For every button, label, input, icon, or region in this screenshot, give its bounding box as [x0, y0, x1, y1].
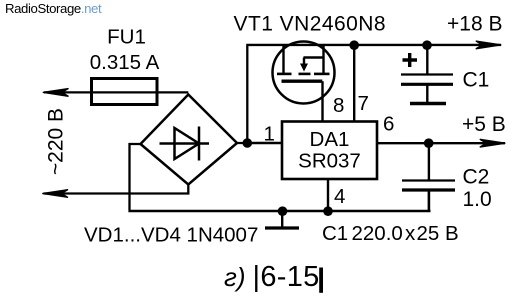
capacitor C2 — [402, 138, 492, 211]
svg-text:VT1 VN2460N8: VT1 VN2460N8 — [234, 12, 386, 35]
source contact foot — [314, 73, 330, 76]
svg-text:C2: C2 — [463, 166, 490, 189]
bottom lead — [426, 85, 428, 102]
bottom lead — [428, 191, 431, 212]
wire: top AC input from arrow to bridge top vertex — [44, 91, 188, 93]
capacitor C1 (electrolytic) — [401, 40, 489, 103]
chassis bar — [410, 102, 446, 105]
wire: +18V top rail — [246, 44, 501, 46]
svg-text:RadioStorage.net: RadioStorage.net — [5, 1, 102, 16]
top lead — [426, 45, 428, 74]
node: ground junction on bottom rail — [278, 206, 288, 216]
bottom plate — [401, 83, 453, 86]
bulk contact foot — [299, 73, 311, 76]
svg-text:VD1...VD4 1N4007: VD1...VD4 1N4007 — [84, 224, 258, 247]
node: C2 to +5 wire junction — [424, 138, 434, 148]
svg-text:220.0: 220.0 — [352, 222, 403, 245]
wire: bridge minus to bottom rail (left vertical) — [130, 144, 141, 210]
svg-text:DA1: DA1 — [310, 128, 350, 151]
svg-text:25 В: 25 В — [417, 222, 459, 245]
svg-text:x: x — [405, 222, 416, 245]
fuse FU1 — [92, 79, 158, 105]
top plate — [402, 179, 455, 181]
IC DA1 SR037 — [282, 122, 377, 180]
svg-text:8: 8 — [333, 94, 344, 117]
drain lead — [282, 46, 284, 73]
svg-text:6: 6 — [383, 113, 394, 136]
svg-text:1.0: 1.0 — [463, 188, 492, 211]
top plate — [401, 73, 453, 75]
node: C1 to +18 rail junction — [422, 40, 432, 50]
wire: pin 7 lead — [353, 45, 355, 122]
diode symbol inside bridge — [160, 127, 210, 161]
wire: pin 1 lead — [247, 142, 282, 144]
source lead — [322, 46, 324, 73]
svg-text:0.315 A: 0.315 A — [90, 51, 160, 74]
terminal arrow +5V — [480, 139, 506, 147]
svg-text:4: 4 — [334, 185, 345, 208]
node: pin7 to +18 rail junction — [349, 40, 359, 50]
node: bridge plus junction — [243, 138, 253, 148]
svg-text:1: 1 — [264, 123, 275, 146]
wire: bridge plus to junction and up to +18V rail — [237, 46, 247, 143]
wire: pin 6 output to +5V arrow — [377, 142, 505, 144]
wire: through fuse — [92, 91, 158, 93]
svg-text:г): г) — [224, 262, 245, 292]
diode bridge VD1-VD4 (diamond) — [141, 95, 238, 185]
node: pin 4 junction — [323, 206, 333, 216]
bulk arrow (points to channel) — [303, 58, 305, 65]
svg-text:C1: C1 — [463, 69, 490, 92]
svg-text:~220 В: ~220 В — [45, 108, 68, 175]
svg-text:FU1: FU1 — [107, 26, 146, 49]
svg-text:7: 7 — [358, 92, 369, 115]
terminal arrow ~220V bottom — [42, 190, 68, 198]
circle body — [273, 42, 335, 104]
drain contact foot — [277, 73, 292, 76]
bulk tie to source — [304, 56, 324, 58]
svg-text:C1: C1 — [322, 222, 348, 245]
wire: pin 4 lead to bottom rail — [327, 179, 329, 211]
svg-text:SR037: SR037 — [298, 150, 361, 173]
terminal arrow ~220V top — [43, 89, 69, 97]
svg-text:+5 В: +5 В — [462, 113, 506, 136]
transistor VT1 (MOSFET) — [273, 42, 335, 122]
wire: bottom common rail — [128, 210, 430, 213]
gate lead to pin 8 — [321, 81, 323, 121]
gate electrode bar — [282, 79, 323, 82]
bottom plate — [402, 188, 455, 191]
svg-text:|6-15: |6-15 — [253, 261, 320, 293]
terminal arrow +18V — [476, 41, 502, 49]
svg-text:+18 В: +18 В — [447, 13, 502, 36]
plus sign — [403, 53, 418, 67]
wire: bottom AC input from arrow to bridge bottom vertex — [44, 185, 189, 194]
ground — [265, 211, 299, 228]
top lead — [428, 143, 430, 180]
